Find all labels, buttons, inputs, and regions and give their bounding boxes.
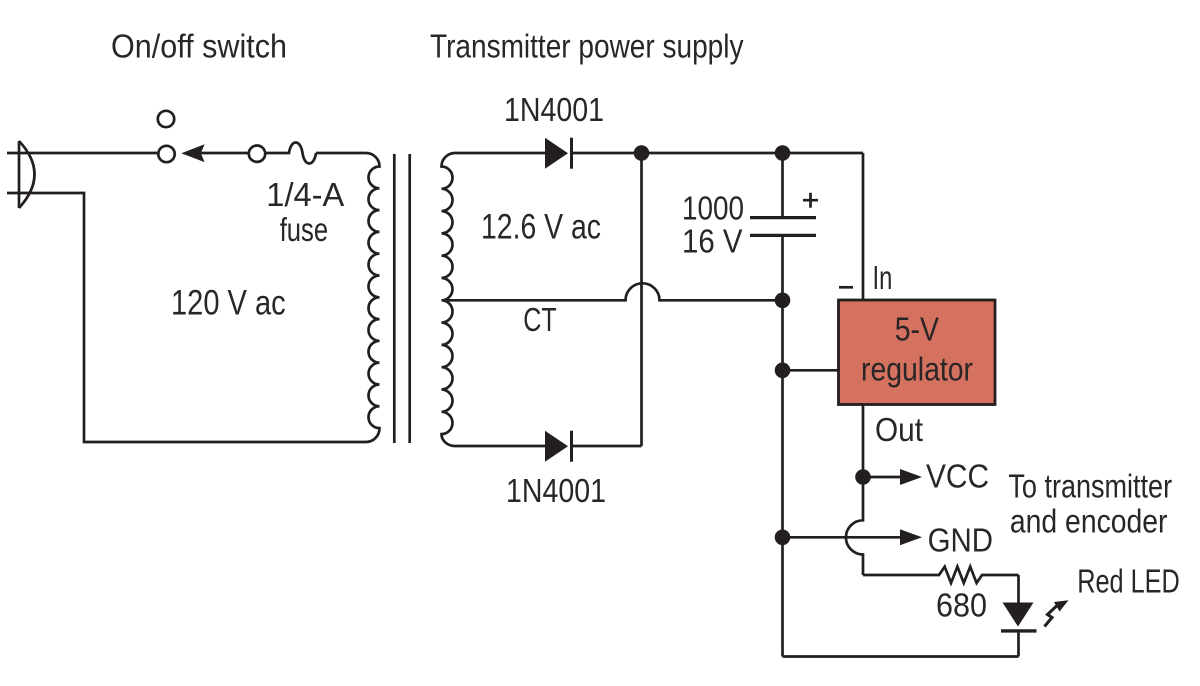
svg-text:5-V: 5-V	[895, 312, 940, 349]
svg-text:fuse: fuse	[280, 212, 328, 249]
node: top rail / capacitor junction	[775, 145, 791, 161]
svg-text:CT: CT	[523, 302, 556, 339]
AC plug P1	[19, 141, 35, 208]
diode D2 1N4001 (bottom)	[545, 431, 572, 462]
wire: bottom return to rail	[783, 655, 1019, 658]
transformer T1 primary winding	[366, 153, 380, 442]
fuse clip circle	[249, 146, 265, 162]
wire: plug top prong to switch	[7, 152, 157, 155]
svg-text:Transmitter power supply: Transmitter power supply	[430, 29, 744, 66]
wire: fuse to transformer primary	[316, 152, 366, 155]
svg-text:120 V ac: 120 V ac	[171, 284, 286, 323]
LED D3 triangle	[1003, 603, 1034, 627]
svg-text:GND: GND	[928, 523, 993, 560]
capacitor C1 1000uF plates	[750, 218, 816, 236]
wire: GND line from rail	[783, 536, 902, 539]
on/off switch S1 upper contact	[158, 111, 174, 127]
VCC arrowhead	[900, 469, 922, 485]
svg-text:Out: Out	[875, 412, 924, 449]
svg-text:16 V: 16 V	[682, 224, 743, 261]
wire: resistor to LED	[1017, 575, 1020, 603]
wire: regulator Out down with hop over GND line	[846, 405, 863, 576]
transformer T1 secondary winding	[442, 153, 456, 446]
wire: VCC stub	[863, 476, 901, 479]
wire: diode D2 to vertical riser	[573, 445, 642, 448]
svg-text:In: In	[873, 260, 893, 297]
wire: vertical from top node down to bottom diode wire	[640, 153, 643, 446]
wire: rail from capacitor down to bottom left corner	[781, 237, 784, 657]
node: rail to GND line junction	[775, 530, 791, 546]
svg-text:VCC: VCC	[926, 459, 989, 496]
svg-text:680: 680	[936, 588, 987, 625]
wire: main left rail upper segment to capacitor	[781, 153, 784, 216]
svg-text:On/off switch: On/off switch	[111, 29, 287, 66]
node: rail to regulator left pin junction	[775, 363, 791, 379]
svg-text:Red LED: Red LED	[1077, 564, 1180, 601]
svg-text:and encoder: and encoder	[1010, 504, 1168, 541]
node: diode D1 output junction	[634, 145, 650, 161]
svg-text:1/4-A: 1/4-A	[266, 177, 345, 214]
wire: center tap with hop over riser	[443, 283, 783, 300]
svg-text:1N4001: 1N4001	[506, 473, 606, 510]
LED D3 cathode bar	[1001, 629, 1037, 632]
switch arrow actuator	[181, 144, 204, 162]
fuse F1 squiggle	[266, 143, 316, 164]
svg-text:1N4001: 1N4001	[504, 92, 604, 129]
svg-text:12.6 V ac: 12.6 V ac	[481, 208, 601, 247]
wire: In drop from top wire to regulator	[862, 153, 865, 300]
capacitor C1 plus polarity mark	[803, 193, 818, 208]
LED emission lightning arrow	[1045, 606, 1058, 627]
wire: secondary top to diode D1	[455, 152, 545, 155]
wire: rail to regulator left pin	[783, 369, 839, 372]
wire: LED to bottom return	[1017, 633, 1020, 657]
wire: secondary bottom to diode D2	[455, 445, 545, 448]
wire: plug bottom prong, left vertical and bottom of primary loop	[7, 193, 366, 442]
svg-text:regulator: regulator	[861, 352, 973, 389]
5-V regulator U1 body	[839, 300, 996, 405]
regulator minus mark	[839, 286, 853, 289]
svg-text:1000: 1000	[682, 190, 744, 227]
diode D1 1N4001 (top)	[545, 138, 572, 169]
node: center tap to rail junction	[775, 293, 791, 309]
node: Out / VCC junction	[855, 469, 871, 485]
resistor R1 680 zigzag	[863, 567, 1019, 583]
on/off switch S1 pole contact	[158, 146, 174, 162]
wire: arrow to fuse clip	[200, 152, 249, 155]
wire: diode D1 to top rail corner	[573, 152, 863, 155]
svg-text:To transmitter: To transmitter	[1008, 469, 1172, 506]
transformer T1 core	[394, 154, 409, 443]
GND arrowhead	[900, 529, 922, 545]
